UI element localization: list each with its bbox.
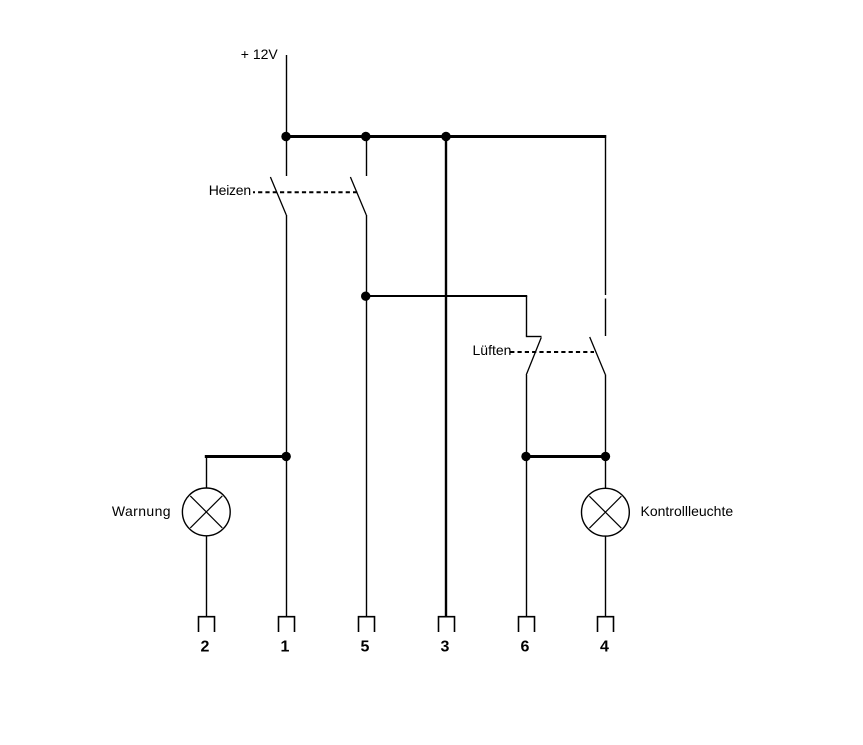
svg-text:Kontrollleuchte: Kontrollleuchte: [641, 503, 734, 519]
junction link / wire 4: [601, 452, 610, 461]
junction bus / wire 5: [361, 132, 370, 141]
label Kontrollleuchte: [641, 503, 734, 519]
svg-text:2: 2: [201, 639, 210, 656]
wire drop to switch S2a: [526, 296, 528, 336]
switch S2a Lueften pole 1 (NC contact tick): [526, 336, 542, 338]
terminal 6 connector: [519, 617, 535, 632]
wire 4 mid (switch S2b down to lamp H2): [605, 375, 607, 489]
svg-text:+ 12V: + 12V: [241, 46, 279, 62]
label Warnung: [112, 503, 171, 519]
switch S2a Lueften pole 1 (NC contact blade): [526, 337, 541, 375]
svg-text:5: 5: [361, 639, 370, 656]
junction link / wire 6: [521, 452, 530, 461]
wire lamp H1 top lead: [206, 457, 208, 488]
wire link wire6-wire4 (thick): [526, 455, 606, 458]
terminal 3 pin number: [441, 639, 450, 656]
wire bus to switch S1a: [286, 138, 288, 176]
switch S1b Heizen pole 2 (NO contact blade): [350, 177, 366, 215]
wire lamp H1 bottom lead (to terminal 2): [206, 536, 208, 617]
wire +12V bus (thick horizontal): [285, 135, 607, 138]
terminal 1 connector: [279, 617, 295, 632]
svg-text:Heizen: Heizen: [209, 182, 251, 198]
wire 4 upper (bus right end down, segment 1): [605, 138, 607, 295]
lamp H1 Warnung (circle with X): [182, 488, 230, 536]
svg-text:6: 6: [521, 639, 530, 656]
terminal 5 connector: [359, 617, 375, 632]
wire branch line (wire 5 to Lueften S2a) horizontal: [366, 295, 527, 297]
label Lueften: [473, 342, 512, 358]
terminal 2 pin number: [201, 639, 210, 656]
wire +12V feed (top of wire 1): [286, 55, 288, 135]
wire link to lamp H1 (thick): [205, 455, 286, 458]
wire bus to switch S1b: [366, 138, 368, 176]
terminal 4 pin number: [600, 639, 609, 656]
net +12V label: [241, 46, 279, 62]
terminal 5 pin number: [361, 639, 370, 656]
terminal 4 connector: [598, 617, 614, 632]
terminal 6 pin number: [521, 639, 530, 656]
terminal 2 connector: [199, 617, 215, 632]
svg-text:Lüften: Lüften: [473, 342, 512, 358]
junction branch / wire 5: [361, 292, 370, 301]
label Heizen: [209, 182, 251, 198]
wire lamp H2 bottom lead (to terminal 4): [605, 536, 607, 616]
svg-text:3: 3: [441, 639, 450, 656]
coupling dashed line Lueften: [510, 351, 594, 353]
junction link / wire 1: [282, 452, 291, 461]
terminal 1 pin number: [281, 639, 290, 656]
wire 4 upper (segment 2 after small gap): [605, 299, 607, 337]
wire 6 (switch S2a to terminal 6): [526, 375, 528, 617]
switch S1a Heizen pole 1 (NO contact blade): [270, 177, 286, 215]
svg-text:1: 1: [281, 639, 290, 656]
junction bus / wire 1: [281, 132, 290, 141]
svg-text:Warnung: Warnung: [112, 503, 171, 519]
wire 1 (switch S1a to terminal 1): [286, 215, 288, 617]
coupling dashed line Heizen: [253, 191, 359, 193]
wire 3 thick (bus to terminal 3): [445, 138, 447, 617]
wire 5 (switch S1b to terminal 5): [366, 215, 368, 617]
lamp H2 Kontrollleuchte (circle with X): [582, 488, 630, 536]
junction bus / wire 3: [441, 132, 450, 141]
switch S2b Lueften pole 2 (NO contact blade): [590, 337, 606, 375]
terminal 3 connector: [439, 617, 455, 632]
svg-text:4: 4: [600, 639, 609, 656]
